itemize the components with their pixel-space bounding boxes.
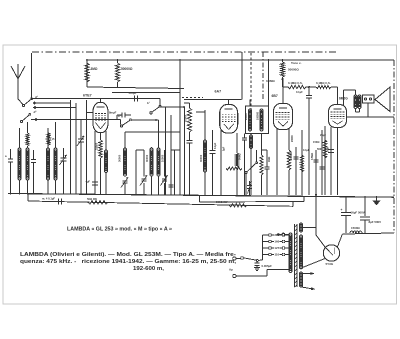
svg-text:10000: 10000 xyxy=(160,154,164,162)
svg-text:50µF: 50µF xyxy=(326,146,329,152)
svg-text:300Ω: 300Ω xyxy=(238,154,242,160)
svg-text:6A7: 6A7 xyxy=(215,90,222,94)
svg-text:1500Ω: 1500Ω xyxy=(351,226,360,230)
svg-text:30000: 30000 xyxy=(199,154,203,162)
svg-text:10000: 10000 xyxy=(183,114,187,122)
svg-text:5Y3G: 5Y3G xyxy=(326,262,334,266)
svg-text:150Ω: 150Ω xyxy=(313,140,319,144)
svg-text:8µF 500V: 8µF 500V xyxy=(369,220,382,224)
svg-text:5000: 5000 xyxy=(317,148,323,151)
svg-text:100000: 100000 xyxy=(290,151,293,160)
svg-text:50Ω 3W: 50Ω 3W xyxy=(87,197,97,201)
svg-text:LAMBDA « GL 253 » mod. « M » t: LAMBDA « GL 253 » mod. « M » tipo « A » xyxy=(67,227,172,233)
svg-text:0.1µF: 0.1µF xyxy=(214,142,217,149)
svg-text:0.1µF: 0.1µF xyxy=(296,90,303,94)
svg-text:3MΩ: 3MΩ xyxy=(91,67,98,71)
svg-text:500Ω 3W: 500Ω 3W xyxy=(216,200,228,204)
svg-text:0.5MΩ: 0.5MΩ xyxy=(266,79,275,83)
svg-text:20000: 20000 xyxy=(245,113,248,120)
svg-text:25µF: 25µF xyxy=(320,133,326,137)
svg-text:1MΩ: 1MΩ xyxy=(268,157,271,162)
svg-text:6TE7: 6TE7 xyxy=(83,94,92,98)
svg-text:20000: 20000 xyxy=(291,135,294,142)
svg-text:50000Ω: 50000Ω xyxy=(121,67,133,71)
svg-text:50000Ω: 50000Ω xyxy=(288,68,299,72)
svg-text:16µF 500V: 16µF 500V xyxy=(351,211,365,215)
svg-text:160: 160 xyxy=(274,240,279,244)
svg-text:m. 4 0.1µF: m. 4 0.1µF xyxy=(42,197,55,201)
svg-text:Ap: Ap xyxy=(229,268,233,272)
svg-text:25000: 25000 xyxy=(95,142,99,150)
svg-text:100000: 100000 xyxy=(257,111,260,120)
svg-text:0.5MΩ: 0.5MΩ xyxy=(311,153,314,160)
svg-text:LAMBDA (Olivieri e Gilenti). —: LAMBDA (Olivieri e Gilenti). — Mod. GL 2… xyxy=(20,252,236,258)
svg-text:d²: d² xyxy=(34,110,37,114)
svg-text:6B7: 6B7 xyxy=(272,94,278,98)
svg-text:110: 110 xyxy=(274,253,279,257)
svg-text:5mµF: 5mµF xyxy=(129,91,137,95)
svg-text:Tono c.: Tono c. xyxy=(291,61,302,65)
svg-text:0.1MΩ C.S.: 0.1MΩ C.S. xyxy=(288,81,303,85)
svg-text:0.1µF: 0.1µF xyxy=(303,149,310,152)
svg-text:127: 127 xyxy=(274,246,279,250)
svg-text:15: 15 xyxy=(52,137,55,141)
svg-text:0.1MΩ C.S.: 0.1MΩ C.S. xyxy=(316,81,331,85)
svg-text:b¹: b¹ xyxy=(147,101,150,105)
svg-text:220: 220 xyxy=(274,233,279,237)
svg-text:quenza: 475 kHz. - ricezione: quenza: 475 kHz. - ricezione 1941-1942. … xyxy=(20,259,237,265)
svg-text:8mµF: 8mµF xyxy=(109,111,117,115)
svg-text:30000: 30000 xyxy=(118,154,122,162)
svg-text:4µF: 4µF xyxy=(86,180,91,184)
svg-text:a: a xyxy=(5,154,7,158)
svg-text:+: + xyxy=(341,208,343,212)
svg-text:192-600 m,: 192-600 m, xyxy=(133,266,164,272)
svg-text:30000: 30000 xyxy=(145,154,149,162)
svg-text:5µF: 5µF xyxy=(223,146,226,151)
svg-text:0.005µF: 0.005µF xyxy=(262,264,273,268)
